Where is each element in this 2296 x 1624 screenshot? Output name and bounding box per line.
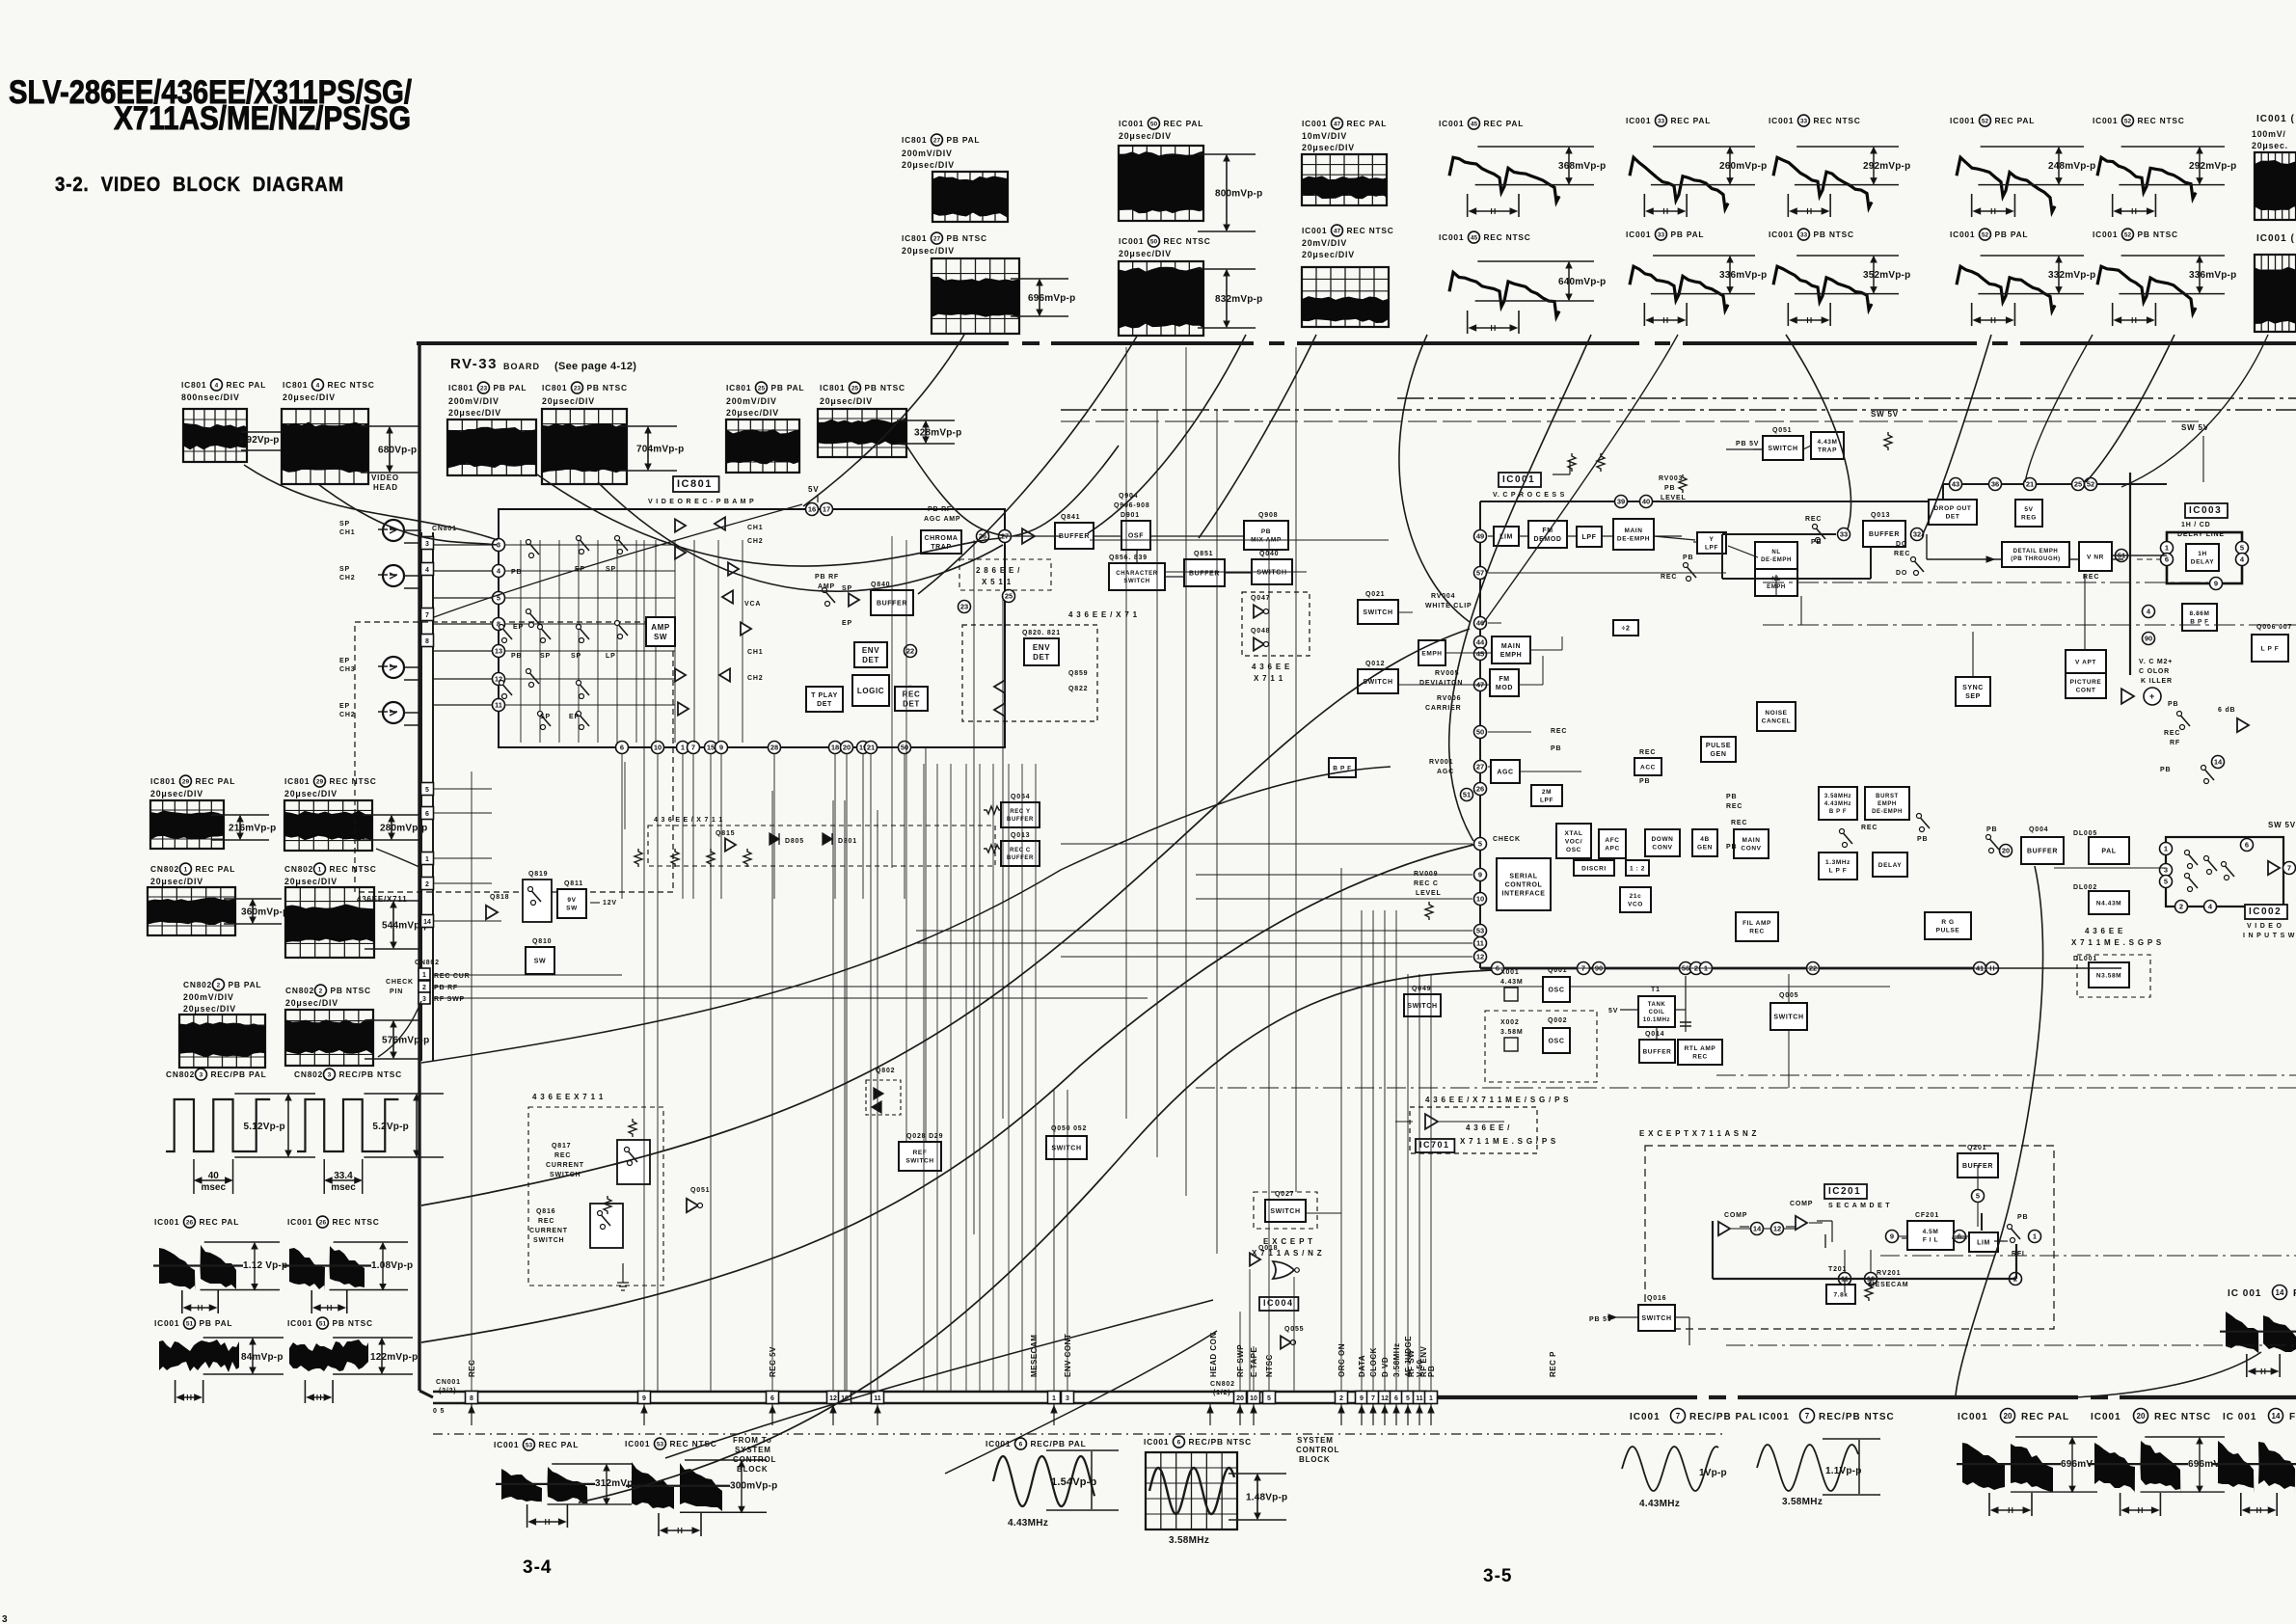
svg-text:FIL AMP: FIL AMP <box>1742 920 1771 927</box>
svg-text:PB PAL: PB PAL <box>1994 230 2028 239</box>
svg-text:IC801: IC801 <box>902 135 927 145</box>
svg-text:DROP OUT: DROP OUT <box>1934 505 1972 512</box>
svg-text:9: 9 <box>1360 1395 1364 1402</box>
svg-text:BLOCK: BLOCK <box>1299 1455 1330 1464</box>
svg-text:VOC/: VOC/ <box>1565 838 1582 845</box>
svg-text:IC001: IC001 <box>1302 119 1327 128</box>
svg-text:÷2: ÷2 <box>1622 625 1631 632</box>
svg-text:CN802: CN802 <box>183 980 212 989</box>
svg-text:1 : 2: 1 : 2 <box>1630 865 1645 872</box>
svg-text:27: 27 <box>933 235 941 242</box>
svg-text:6 dB: 6 dB <box>2218 707 2235 714</box>
svg-text:Q047: Q047 <box>1251 595 1270 602</box>
svg-text:20μsec/DIV: 20μsec/DIV <box>285 998 338 1008</box>
svg-text:IC001: IC001 <box>1769 230 1794 239</box>
svg-text:(2/2): (2/2) <box>439 1388 456 1394</box>
svg-text:PB PAL: PB PAL <box>199 1318 232 1328</box>
svg-text:SYNC: SYNC <box>1962 685 1984 691</box>
svg-text:IC001: IC001 <box>2093 230 2118 239</box>
svg-text:RF SWP: RF SWP <box>434 996 465 1003</box>
svg-text:SWITCH: SWITCH <box>550 1172 581 1178</box>
svg-text:EP: EP <box>513 624 524 631</box>
svg-text:REC: REC <box>1726 803 1742 810</box>
svg-text:SWITCH: SWITCH <box>1641 1315 1671 1322</box>
svg-text:REG: REG <box>2021 515 2037 522</box>
svg-text:Q820. 821: Q820. 821 <box>1022 630 1061 636</box>
svg-text:DE-EMPH: DE-EMPH <box>1872 809 1903 815</box>
svg-text:5V: 5V <box>1608 1008 1618 1015</box>
svg-text:B P F: B P F <box>1829 809 1847 815</box>
svg-text:IC801: IC801 <box>902 233 927 243</box>
svg-text:52: 52 <box>1982 118 1989 124</box>
svg-text:3: 3 <box>328 1071 332 1078</box>
svg-text:BOARD: BOARD <box>503 362 540 371</box>
svg-text:AMP: AMP <box>651 623 670 632</box>
svg-text:X711AS/ME/NZ/PS/SG: X711AS/ME/NZ/PS/SG <box>114 100 411 137</box>
svg-text:CHARACTER: CHARACTER <box>1116 571 1157 577</box>
svg-text:PB NTSC: PB NTSC <box>586 383 627 392</box>
svg-text:IC003: IC003 <box>2189 505 2222 516</box>
svg-text:IC001: IC001 <box>154 1318 179 1328</box>
svg-text:EMPH: EMPH <box>1421 650 1442 657</box>
svg-text:H: H <box>1662 207 1668 216</box>
svg-text:SP: SP <box>540 653 551 660</box>
svg-text:300mVp-p: 300mVp-p <box>730 1481 777 1492</box>
svg-text:X002: X002 <box>1500 1019 1520 1026</box>
svg-text:PB PAL: PB PAL <box>493 383 527 392</box>
svg-text:8: 8 <box>470 1395 473 1402</box>
svg-text:DET: DET <box>1033 653 1050 662</box>
svg-text:REC NTSC: REC NTSC <box>329 776 376 786</box>
svg-text:4 3 6 E E / X 7 1: 4 3 6 E E / X 7 1 <box>1068 610 1138 619</box>
svg-text:REC: REC <box>1731 820 1747 826</box>
svg-text:IC001: IC001 <box>1769 116 1794 125</box>
svg-text:ENV: ENV <box>1033 643 1050 652</box>
svg-text:SWITCH: SWITCH <box>1256 569 1286 576</box>
svg-text:6: 6 <box>2165 555 2169 564</box>
svg-text:VIDEO: VIDEO <box>371 474 399 482</box>
svg-text:4B: 4B <box>1700 836 1710 843</box>
svg-text:IC001: IC001 <box>2091 1412 2121 1422</box>
svg-text:20μsec/DIV: 20μsec/DIV <box>902 160 955 170</box>
svg-text:REC PAL: REC PAL <box>1163 119 1203 128</box>
svg-text:696mVp-p: 696mVp-p <box>1028 293 1075 304</box>
svg-text:X 7 1 1 M E . S G / P S: X 7 1 1 M E . S G / P S <box>1460 1137 1556 1146</box>
svg-text:5: 5 <box>2240 544 2244 553</box>
svg-text:20μsec/DIV: 20μsec/DIV <box>1302 143 1355 152</box>
svg-text:REC PAL: REC PAL <box>2021 1412 2069 1422</box>
svg-text:COIL: COIL <box>1649 1010 1665 1015</box>
svg-text:F: F <box>2289 1412 2296 1422</box>
svg-text:DL002: DL002 <box>2073 884 2097 891</box>
svg-text:IC001: IC001 <box>1502 474 1535 485</box>
svg-text:REC Y: REC Y <box>1010 809 1030 815</box>
svg-text:IC002: IC002 <box>2249 907 2282 917</box>
svg-text:336mVp-p: 336mVp-p <box>1719 270 1767 281</box>
svg-text:H: H <box>2138 1506 2144 1515</box>
svg-text:1.08Vp-p: 1.08Vp-p <box>371 1260 413 1271</box>
svg-text:X 7 1 1: X 7 1 1 <box>1254 674 1283 683</box>
svg-text:50: 50 <box>1150 121 1158 127</box>
svg-text:20μsec/DIV: 20μsec/DIV <box>1119 131 1172 141</box>
svg-text:PB: PB <box>2160 767 2171 773</box>
svg-text:IC001: IC001 <box>625 1439 650 1448</box>
svg-text:3-4: 3-4 <box>523 1557 552 1578</box>
svg-text:26: 26 <box>1476 785 1484 794</box>
svg-text:PULSE: PULSE <box>1706 743 1731 749</box>
svg-text:REC: REC <box>1661 574 1677 581</box>
svg-text:DL005: DL005 <box>2073 830 2097 837</box>
svg-text:X 5 1 1: X 5 1 1 <box>982 578 1012 586</box>
svg-text:IC001: IC001 <box>1958 1412 1988 1422</box>
svg-text:Q012: Q012 <box>1365 661 1385 667</box>
svg-text:50: 50 <box>901 744 908 752</box>
svg-text:CN001: CN001 <box>436 1379 461 1386</box>
svg-text:20: 20 <box>2002 847 2010 855</box>
svg-text:1: 1 <box>2165 544 2169 553</box>
svg-text:1: 1 <box>2164 845 2168 853</box>
svg-text:0 5: 0 5 <box>433 1408 445 1415</box>
svg-text:CONV: CONV <box>1741 846 1761 853</box>
svg-text:704mVp-p: 704mVp-p <box>636 445 684 455</box>
svg-text:PB: PB <box>1639 778 1650 785</box>
svg-text:CH3: CH3 <box>339 666 355 673</box>
svg-text:H: H <box>2131 316 2137 325</box>
svg-text:REF: REF <box>913 1150 928 1156</box>
svg-text:23: 23 <box>574 385 581 392</box>
svg-text:IC201: IC201 <box>1828 1186 1861 1197</box>
svg-text:DET: DET <box>862 656 879 664</box>
svg-text:V I D E O: V I D E O <box>2247 923 2282 930</box>
svg-text:REC NTSC: REC NTSC <box>327 380 374 390</box>
svg-text:1H / CD: 1H / CD <box>2181 522 2211 528</box>
svg-text:1: 1 <box>681 744 685 752</box>
svg-text:20μsec/DIV: 20μsec/DIV <box>283 392 336 402</box>
svg-text:TANK: TANK <box>1648 1002 1666 1008</box>
svg-text:DET: DET <box>1946 514 1960 521</box>
svg-text:IC801: IC801 <box>726 383 751 392</box>
svg-text:VCO: VCO <box>1628 902 1643 908</box>
svg-text:IC001: IC001 <box>1630 1412 1661 1422</box>
svg-text:MAIN: MAIN <box>1742 837 1760 844</box>
svg-text:R G: R G <box>1941 919 1954 926</box>
svg-text:7: 7 <box>2287 864 2291 873</box>
svg-text:REC NTSC: REC NTSC <box>332 1217 379 1227</box>
svg-text:LOGIC: LOGIC <box>857 687 884 695</box>
svg-text:696mV: 696mV <box>2061 1459 2093 1470</box>
svg-text:DATA: DATA <box>1358 1355 1366 1377</box>
svg-text:CH1: CH1 <box>339 529 355 536</box>
svg-text:NL: NL <box>1771 550 1780 555</box>
svg-text:9: 9 <box>1890 1232 1894 1241</box>
svg-text:25: 25 <box>2074 480 2082 489</box>
svg-text:MESECAM: MESECAM <box>1869 1282 1908 1288</box>
svg-text:248mVp-p: 248mVp-p <box>2048 161 2095 172</box>
svg-text:122mVp-p: 122mVp-p <box>370 1352 418 1363</box>
svg-text:H: H <box>1662 316 1668 325</box>
svg-text:PB: PB <box>1683 555 1693 561</box>
svg-text:CLOCK: CLOCK <box>1369 1347 1378 1377</box>
svg-text:28: 28 <box>770 744 778 752</box>
svg-text:6: 6 <box>770 1395 774 1402</box>
svg-text:44: 44 <box>1476 638 1485 647</box>
svg-text:3: 3 <box>2164 866 2168 875</box>
svg-text:IC001: IC001 <box>1626 116 1651 125</box>
svg-text:332mVp-p: 332mVp-p <box>2048 270 2095 281</box>
svg-text:REC: REC <box>1861 825 1877 831</box>
svg-text:PB NTSC: PB NTSC <box>946 233 986 243</box>
svg-text:4.43MHz: 4.43MHz <box>1008 1518 1048 1529</box>
svg-text:12: 12 <box>829 1395 837 1402</box>
svg-text:4 3 6 E E X 7 1 1: 4 3 6 E E X 7 1 1 <box>532 1093 604 1101</box>
svg-text:H: H <box>2008 1506 2013 1515</box>
svg-text:H: H <box>1806 207 1812 216</box>
svg-text:20μsec/DIV: 20μsec/DIV <box>284 877 338 886</box>
svg-text:368mVp-p: 368mVp-p <box>1558 161 1606 172</box>
svg-text:K ILLER: K ILLER <box>2141 678 2173 685</box>
svg-text:436EE/X711: 436EE/X711 <box>357 895 407 904</box>
svg-text:BUFFER: BUFFER <box>1643 1048 1672 1055</box>
svg-text:REC P: REC P <box>1549 1351 1557 1377</box>
svg-text:IC801: IC801 <box>150 776 176 786</box>
svg-text:352mVp-p: 352mVp-p <box>1863 270 1910 281</box>
svg-text:REC C: REC C <box>1414 880 1439 887</box>
svg-text:CN802: CN802 <box>150 864 179 874</box>
svg-text:BUFFER: BUFFER <box>1007 817 1034 823</box>
svg-text:1: 1 <box>318 866 322 873</box>
svg-text:640mVp-p: 640mVp-p <box>1558 277 1606 287</box>
svg-text:Q021: Q021 <box>1365 591 1385 598</box>
svg-text:CN802: CN802 <box>166 1069 195 1079</box>
svg-text:DISCRI: DISCRI <box>1581 865 1607 872</box>
svg-text:Q908: Q908 <box>1258 512 1278 519</box>
svg-text:5: 5 <box>1267 1395 1271 1402</box>
svg-text:Q028 D29: Q028 D29 <box>906 1133 943 1140</box>
svg-text:12: 12 <box>1476 953 1484 961</box>
svg-text:14: 14 <box>1753 1225 1762 1233</box>
svg-text:SP: SP <box>339 521 350 528</box>
svg-text:IC001: IC001 <box>1626 230 1651 239</box>
svg-text:CHROMA: CHROMA <box>924 535 958 542</box>
svg-text:20μsec/DIV: 20μsec/DIV <box>726 408 779 418</box>
svg-text:CF201: CF201 <box>1915 1212 1939 1219</box>
svg-text:7: 7 <box>691 744 695 752</box>
svg-text:H: H <box>677 1527 683 1535</box>
svg-text:IC001: IC001 <box>287 1318 312 1328</box>
svg-text:3.58MHz: 3.58MHz <box>1392 1342 1401 1377</box>
svg-text:20: 20 <box>2137 1412 2146 1421</box>
svg-text:IC001: IC001 <box>1119 119 1144 128</box>
svg-text:D801: D801 <box>838 838 857 845</box>
svg-text:RTL AMP: RTL AMP <box>1685 1045 1716 1052</box>
svg-text:Y: Y <box>1710 536 1715 543</box>
svg-text:1: 1 <box>1052 1395 1056 1402</box>
svg-text:8.86M: 8.86M <box>2189 610 2209 617</box>
svg-text:SW: SW <box>534 958 546 964</box>
svg-text:IC001: IC001 <box>494 1440 519 1449</box>
svg-text:REC NTSC: REC NTSC <box>2154 1412 2211 1422</box>
svg-text:REC: REC <box>2164 730 2180 737</box>
svg-text:4: 4 <box>215 382 219 389</box>
svg-text:GEN: GEN <box>1697 845 1713 852</box>
svg-text:REC 5V: REC 5V <box>769 1346 777 1377</box>
svg-text:SEP: SEP <box>1965 693 1981 700</box>
svg-text:90: 90 <box>2145 635 2152 643</box>
svg-text:10: 10 <box>1250 1395 1257 1402</box>
svg-text:V NR: V NR <box>2087 554 2104 560</box>
svg-text:Q050 052: Q050 052 <box>1051 1125 1087 1132</box>
svg-text:PB NTSC: PB NTSC <box>2137 230 2177 239</box>
svg-text:18: 18 <box>831 744 839 752</box>
svg-text:SP: SP <box>571 653 581 660</box>
svg-text:REC: REC <box>1749 929 1765 935</box>
svg-text:4.43M: 4.43M <box>1817 439 1837 446</box>
svg-text:5V: 5V <box>2024 506 2033 513</box>
svg-text:CN802: CN802 <box>285 986 314 995</box>
svg-text:4: 4 <box>316 382 320 389</box>
svg-text:SWITCH: SWITCH <box>533 1237 564 1244</box>
svg-text:29: 29 <box>316 778 324 785</box>
svg-text:CURRENT: CURRENT <box>546 1162 584 1169</box>
svg-text:Q051: Q051 <box>1772 427 1792 434</box>
svg-text:REC PAL: REC PAL <box>1483 119 1524 128</box>
svg-text:LP: LP <box>606 653 616 660</box>
svg-text:H: H <box>1990 207 1996 216</box>
svg-text:OSC: OSC <box>1566 847 1581 853</box>
svg-text:IC801: IC801 <box>448 383 473 392</box>
svg-text:IC001: IC001 <box>2093 116 2118 125</box>
svg-text:25: 25 <box>758 385 766 392</box>
svg-text:CONT: CONT <box>2076 688 2096 694</box>
svg-text:53: 53 <box>1476 927 1484 935</box>
svg-text:PB PAL: PB PAL <box>1670 230 1704 239</box>
svg-text:Q818: Q818 <box>490 894 509 901</box>
svg-text:DE-EMPH: DE-EMPH <box>1761 557 1792 563</box>
svg-text:Q051: Q051 <box>690 1187 710 1194</box>
svg-text:LPF: LPF <box>1540 798 1553 804</box>
svg-text:IC001 (: IC001 ( <box>2256 233 2295 244</box>
svg-text:EP: EP <box>569 714 580 720</box>
svg-text:REC NTSC: REC NTSC <box>329 864 376 874</box>
svg-text:IC001: IC001 <box>1950 116 1975 125</box>
svg-text:14: 14 <box>2276 1288 2284 1297</box>
svg-text:S E C A M D E T: S E C A M D E T <box>1828 1203 1890 1209</box>
svg-text:2: 2 <box>2179 903 2183 911</box>
svg-text:4F JUDGE: 4F JUDGE <box>1404 1336 1413 1377</box>
svg-text:N3.58M: N3.58M <box>2096 972 2121 979</box>
svg-text:52: 52 <box>2124 118 2132 124</box>
svg-text:CONTROL: CONTROL <box>1505 881 1543 888</box>
svg-text:IC001: IC001 <box>1302 226 1327 235</box>
svg-text:INTERFACE: INTERFACE <box>1501 890 1545 897</box>
svg-text:EMPH: EMPH <box>1500 652 1523 659</box>
svg-text:20μsec/DIV: 20μsec/DIV <box>448 408 501 418</box>
svg-text:PB RF: PB RF <box>815 574 839 581</box>
svg-text:Q817: Q817 <box>552 1143 571 1150</box>
svg-text:REC CUR: REC CUR <box>434 973 471 980</box>
svg-text:51: 51 <box>319 1320 327 1327</box>
svg-text:DEMOD: DEMOD <box>1533 536 1561 543</box>
svg-text:7.8k: 7.8k <box>1833 1291 1848 1298</box>
svg-text:E X C E P T X 7 1 1 A S N: E X C E P T X 7 1 1 A S N Z <box>1639 1129 1757 1138</box>
svg-text:1: 1 <box>2033 1232 2037 1241</box>
svg-text:45: 45 <box>1476 650 1484 659</box>
svg-text:3.92Vp-p: 3.92Vp-p <box>238 435 279 446</box>
svg-text:CH1: CH1 <box>747 525 763 531</box>
svg-text:CN802: CN802 <box>415 960 440 966</box>
svg-text:9: 9 <box>642 1395 646 1402</box>
svg-text:XTAL: XTAL <box>1565 830 1583 837</box>
svg-text:50: 50 <box>1476 728 1484 737</box>
svg-text:47: 47 <box>1334 121 1341 127</box>
svg-text:REC: REC <box>1639 749 1656 756</box>
svg-text:I N P U T S W: I N P U T S W <box>2243 933 2295 939</box>
svg-text:SYSTEM: SYSTEM <box>1297 1436 1334 1445</box>
svg-text:MESECAM: MESECAM <box>1030 1335 1039 1377</box>
svg-text:20μsec.: 20μsec. <box>2252 141 2288 150</box>
svg-text:SERIAL: SERIAL <box>1509 873 1537 880</box>
svg-text:Q013: Q013 <box>1011 832 1030 839</box>
svg-text:LIM: LIM <box>1977 1239 1990 1246</box>
svg-text:20mV/DIV: 20mV/DIV <box>1302 238 1347 248</box>
svg-text:SWITCH: SWITCH <box>905 1158 933 1165</box>
svg-text:H: H <box>1806 316 1812 325</box>
svg-text:20μsec/DIV: 20μsec/DIV <box>183 1004 236 1014</box>
svg-text:6: 6 <box>2245 841 2249 850</box>
svg-text:800nsec/DIV: 800nsec/DIV <box>181 392 240 402</box>
svg-text:DO: DO <box>1896 570 1907 577</box>
svg-text:X001: X001 <box>1500 969 1520 976</box>
svg-text:PB NTSC: PB NTSC <box>864 383 905 392</box>
svg-text:FM: FM <box>1499 676 1509 683</box>
svg-text:ENV: ENV <box>862 646 879 655</box>
svg-text:AGC: AGC <box>1497 769 1513 775</box>
svg-text:40: 40 <box>208 1171 220 1181</box>
svg-text:DELAY: DELAY <box>1878 862 1902 869</box>
svg-text:33.4: 33.4 <box>334 1171 353 1181</box>
svg-text:SWITCH: SWITCH <box>1123 579 1149 584</box>
svg-text:REC PAL: REC PAL <box>195 776 235 786</box>
svg-text:CH2: CH2 <box>747 538 763 545</box>
svg-text:X 7 1 1 A S / N Z: X 7 1 1 A S / N Z <box>1252 1249 1322 1258</box>
svg-text:680Vp-p: 680Vp-p <box>378 446 417 456</box>
svg-text:3: 3 <box>425 541 429 548</box>
svg-text:12: 12 <box>1381 1395 1389 1402</box>
svg-text:REC PAL: REC PAL <box>1670 116 1711 125</box>
svg-text:5: 5 <box>425 787 429 794</box>
svg-text:27: 27 <box>1476 763 1484 771</box>
svg-text:25: 25 <box>1005 592 1013 601</box>
svg-text:20μsec/DIV: 20μsec/DIV <box>1302 250 1355 259</box>
svg-text:Q810: Q810 <box>532 938 552 945</box>
svg-text:IC001: IC001 <box>1119 236 1144 246</box>
svg-text:1.48Vp-p: 1.48Vp-p <box>1246 1493 1287 1503</box>
svg-text:12V: 12V <box>603 900 617 907</box>
svg-text:6: 6 <box>1394 1395 1398 1402</box>
svg-text:REC/PB PAL: REC/PB PAL <box>1689 1412 1757 1422</box>
svg-text:REC NTSC: REC NTSC <box>1483 232 1530 242</box>
svg-text:3: 3 <box>2 1614 8 1624</box>
svg-text:VCA: VCA <box>744 601 761 608</box>
svg-text:REC NTSC: REC NTSC <box>2137 116 2184 125</box>
svg-text:13: 13 <box>495 647 502 656</box>
svg-text:5.2Vp-p: 5.2Vp-p <box>372 1122 409 1132</box>
svg-text:10mV/DIV: 10mV/DIV <box>1302 131 1347 141</box>
svg-text:REC: REC <box>2083 574 2099 581</box>
svg-text:REC/PB NTSC: REC/PB NTSC <box>1188 1437 1252 1447</box>
svg-text:REC/PB NTSC: REC/PB NTSC <box>338 1069 402 1079</box>
svg-text:CN802: CN802 <box>284 864 313 874</box>
